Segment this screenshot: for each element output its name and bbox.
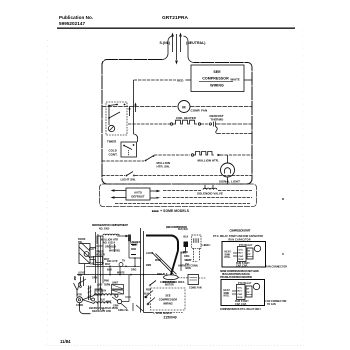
box: some-models auxiliary outline bbox=[100, 184, 257, 207]
svg-text:DRAIN HTR 16W: DRAIN HTR 16W bbox=[92, 310, 112, 313]
wire: right dashed drops bbox=[193, 248, 195, 261]
wire WHITE from compressor box bbox=[244, 79, 252, 81]
svg-text:BRN: BRN bbox=[146, 265, 151, 267]
svg-text:OVL: OVL bbox=[239, 249, 244, 251]
svg-text:COIL HEATER: COIL HEATER bbox=[176, 116, 197, 120]
svg-text:CAP. CAP.: CAP. CAP. bbox=[236, 264, 248, 267]
svg-text:Publication No.: Publication No. bbox=[59, 15, 93, 20]
resistor: drain heater coil bbox=[94, 302, 111, 304]
svg-text:CONT.: CONT. bbox=[109, 153, 118, 157]
svg-text:PNK: PNK bbox=[104, 281, 109, 283]
svg-text:COMPRESSOR IS P.T.C. RELAY ONL: COMPRESSOR IS P.T.C. RELAY ONLY bbox=[220, 308, 261, 311]
svg-text:▸▸▸▸ + SOME MODELS: ▸▸▸▸ + SOME MODELS bbox=[151, 209, 190, 213]
cabinet wiring outline group bbox=[102, 34, 252, 184]
box: wiring clip (dashed) bbox=[192, 235, 201, 248]
svg-text:S.(NL): S.(NL) bbox=[160, 41, 171, 45]
svg-text:BRN: BRN bbox=[186, 268, 191, 270]
switch: RED/BLK contacts bbox=[150, 281, 156, 286]
drops below junction area bbox=[132, 303, 134, 311]
wire: vertical feed from RED line to cold control bbox=[133, 80, 135, 134]
svg-text:SIGNAL LIGHT: SIGNAL LIGHT bbox=[219, 180, 240, 184]
svg-text:AUTO: AUTO bbox=[134, 191, 142, 195]
box: defrost timer (dashed) bbox=[106, 102, 127, 135]
svg-text:WHITE: WHITE bbox=[231, 77, 240, 81]
wire: thick harness cable bbox=[146, 236, 178, 251]
svg-text:CAP: CAP bbox=[238, 293, 243, 296]
coil: SOLENOID VALVE bbox=[163, 190, 201, 192]
svg-text:GRT21PRA: GRT21PRA bbox=[162, 15, 188, 21]
svg-text:MTG.: MTG. bbox=[224, 296, 230, 298]
svg-text:TIMER: TIMER bbox=[107, 140, 117, 144]
svg-text:11/84: 11/84 bbox=[60, 339, 71, 344]
switch: COLD CONT. thermostat box bbox=[121, 142, 137, 157]
svg-text:RUN START: RUN START bbox=[235, 300, 249, 303]
wire: left curls to ground run bbox=[80, 303, 91, 314]
box: compressor wiring detail 2 bbox=[221, 280, 265, 306]
svg-text:RED BLK: RED BLK bbox=[157, 274, 168, 276]
svg-text:COMPRESSOR: COMPRESSOR bbox=[159, 299, 178, 302]
svg-text:RED: RED bbox=[177, 78, 184, 82]
svg-text:COMPRESSOR AREA: COMPRESSOR AREA bbox=[160, 281, 185, 284]
node: terminal block (filled) bbox=[128, 235, 131, 242]
node: supply arrow down into cabinet bbox=[175, 61, 178, 65]
box: AUTO DEFROST timer bbox=[126, 188, 150, 200]
svg-text:(NEUTRAL): (NEUTRAL) bbox=[186, 41, 206, 45]
svg-text:FAN CONNECTOR: FAN CONNECTOR bbox=[266, 266, 287, 269]
door box wire to bundle bbox=[90, 247, 96, 249]
node: auto defrost timer arrows bbox=[113, 190, 126, 192]
svg-text:LIMIT: LIMIT bbox=[112, 283, 119, 285]
svg-text:SEE: SEE bbox=[165, 295, 170, 298]
svg-text:GRN: GRN bbox=[92, 278, 98, 280]
svg-text:WIRE: WIRE bbox=[155, 260, 162, 262]
svg-text:HEAT: HEAT bbox=[225, 251, 232, 254]
wire: supply line right curve bbox=[184, 36, 195, 63]
node: junction dots bbox=[119, 263, 123, 267]
svg-text:MTG.: MTG. bbox=[225, 257, 231, 259]
svg-text:HTR. SW.: HTR. SW. bbox=[157, 165, 170, 169]
svg-text:COND FAN: COND FAN bbox=[189, 287, 202, 290]
svg-text:FAN CONNECTOR: FAN CONNECTOR bbox=[266, 300, 287, 303]
svg-text:2150049: 2150049 bbox=[164, 316, 177, 320]
svg-text:REFRIGERATOR COMPARTMENT: REFRIGERATOR COMPARTMENT bbox=[92, 223, 128, 227]
svg-text:WHT: WHT bbox=[185, 260, 191, 262]
vertical beside diagonal bbox=[180, 252, 182, 271]
wire: supply line left curve bbox=[162, 36, 173, 60]
svg-text:MULLION HTR.: MULLION HTR. bbox=[198, 159, 219, 163]
wire: long right vertical pair bbox=[140, 228, 142, 313]
resistor: MULLION HTR. bbox=[154, 154, 190, 156]
svg-text:HEAT: HEAT bbox=[224, 289, 231, 292]
svg-text:WHT: WHT bbox=[105, 264, 111, 266]
motor M1 COMP. FAN bbox=[178, 101, 190, 113]
box: condenser fan connector bbox=[188, 275, 199, 285]
svg-text:TIMER: TIMER bbox=[96, 252, 104, 254]
svg-text:RUN: RUN bbox=[239, 259, 244, 261]
node: supply terminal lines S/N bbox=[172, 36, 174, 52]
svg-text:WHITE: WHITE bbox=[117, 273, 125, 275]
svg-text:NO. 61214: NO. 61214 bbox=[103, 241, 116, 244]
svg-text:5995202147: 5995202147 bbox=[59, 21, 85, 26]
wire: compressor fan line bbox=[102, 106, 178, 108]
node: timer contact arrows bbox=[129, 108, 131, 116]
wire: harness bundle verticals bbox=[96, 232, 136, 310]
svg-text:MOTOR: MOTOR bbox=[165, 285, 174, 287]
svg-text:DEF TERM: DEF TERM bbox=[98, 285, 110, 287]
resistor: defrost heater coil bbox=[94, 294, 114, 296]
bundle risers to mullion line bbox=[100, 236, 102, 240]
svg-text:BLK-WH: BLK-WH bbox=[178, 229, 188, 231]
svg-text:CAP. CAP.: CAP. CAP. bbox=[235, 303, 247, 306]
svg-text:SOLENOID VALVE: SOLENOID VALVE bbox=[197, 192, 223, 196]
svg-text:DEFROST: DEFROST bbox=[131, 195, 144, 199]
switch: LIGHT SW. bbox=[102, 175, 125, 177]
svg-text:CAP: CAP bbox=[239, 255, 244, 258]
svg-text:TH: TH bbox=[122, 261, 125, 263]
svg-text:ORG: ORG bbox=[184, 256, 190, 258]
svg-text:BLK: BLK bbox=[144, 293, 149, 295]
tie bars between verticals bbox=[96, 245, 104, 247]
svg-text:NO. 5303: NO. 5303 bbox=[99, 229, 110, 231]
svg-text:OVL: OVL bbox=[238, 287, 243, 289]
svg-text:COMPRESSOR: COMPRESSOR bbox=[202, 77, 229, 81]
switch: MULLION HTR. SW. bbox=[102, 160, 144, 162]
svg-text:RLY: RLY bbox=[238, 291, 243, 293]
svg-text:ORG: ORG bbox=[131, 270, 137, 272]
lamp: cabinet light bbox=[108, 125, 114, 131]
svg-text:SINK: SINK bbox=[224, 293, 230, 295]
ellipse link dashes bbox=[178, 277, 188, 279]
svg-text:BLK: BLK bbox=[107, 270, 112, 272]
svg-text:WIRING: WIRING bbox=[210, 84, 224, 88]
svg-text:BLK: BLK bbox=[184, 237, 189, 239]
svg-text:BLK: BLK bbox=[89, 249, 94, 251]
svg-text:RUN: RUN bbox=[238, 297, 243, 299]
header rule bbox=[57, 27, 295, 29]
svg-text:BLK: BLK bbox=[183, 252, 188, 254]
svg-text:—BLK: —BLK bbox=[202, 245, 210, 247]
wire: lower bus horizontals bbox=[86, 265, 141, 267]
wire: main cabinet outline bbox=[102, 60, 252, 185]
svg-text:P.T.C. RELAY AND RUN CAPACITOR: P.T.C. RELAY AND RUN CAPACITOR bbox=[220, 276, 252, 279]
svg-text:THERMO: THERMO bbox=[211, 118, 225, 122]
svg-text:COMP. FAN: COMP. FAN bbox=[191, 109, 208, 113]
svg-text:YEL: YEL bbox=[185, 264, 190, 266]
motor M3 condenser motor bbox=[77, 297, 83, 303]
wire: extra harness segments bbox=[85, 236, 189, 311]
svg-text:GRN-YEL: GRN-YEL bbox=[118, 310, 129, 312]
resistor: COIL HEATER element bbox=[170, 123, 172, 125]
wire: coil heater row bbox=[128, 123, 170, 125]
resistor: mullion heater (lower diagram) bbox=[97, 234, 126, 244]
svg-text:TO FAN: TO FAN bbox=[267, 303, 276, 306]
motor M2 EVAP FAN bbox=[164, 275, 179, 280]
lamp: SIGNAL LIGHT bbox=[227, 155, 229, 163]
svg-text:CP: CP bbox=[247, 292, 251, 294]
box: compressor wiring detail 1 bbox=[222, 242, 266, 268]
svg-text:LIGHT SW.: LIGHT SW. bbox=[121, 178, 136, 182]
svg-text:COND: COND bbox=[76, 305, 83, 307]
svg-text:RLY: RLY bbox=[239, 253, 244, 255]
svg-text:BLACK: BLACK bbox=[130, 242, 139, 245]
svg-text:COMPRESSOR START: COMPRESSOR START bbox=[230, 230, 251, 233]
wire to thermostat row bbox=[128, 242, 130, 258]
node: mid bottom connectors bbox=[97, 284, 99, 286]
node: terminal block blob bbox=[184, 242, 189, 248]
svg-text:DEF: DEF bbox=[90, 264, 95, 266]
wire RED to compressor box bbox=[134, 79, 176, 81]
svg-text:HTR 120V: HTR 120V bbox=[95, 291, 107, 293]
svg-text:DEF HTR: DEF HTR bbox=[107, 261, 118, 263]
node: supply arrow S.(NL) up bbox=[171, 33, 174, 37]
svg-text:CP: CP bbox=[248, 254, 252, 256]
svg-text:WIRING: WIRING bbox=[163, 303, 173, 306]
svg-text:WHT: WHT bbox=[106, 302, 112, 304]
svg-text:SINK: SINK bbox=[225, 254, 231, 256]
svg-text:LOOM: LOOM bbox=[146, 253, 153, 255]
decorative scan artifacts (not labelled further) bbox=[45, 30, 305, 346]
box: SEE COMPRESSOR WIRING reference bbox=[191, 65, 244, 92]
node: supply arrow NEUTRAL up bbox=[179, 33, 182, 37]
svg-text:GRN: GRN bbox=[113, 306, 119, 308]
box: limit switch rects bbox=[112, 285, 124, 290]
svg-text:RUN CAPACITOR: RUN CAPACITOR bbox=[229, 238, 251, 241]
svg-text:SEE: SEE bbox=[213, 70, 221, 74]
svg-text:BLK: BLK bbox=[100, 300, 105, 302]
